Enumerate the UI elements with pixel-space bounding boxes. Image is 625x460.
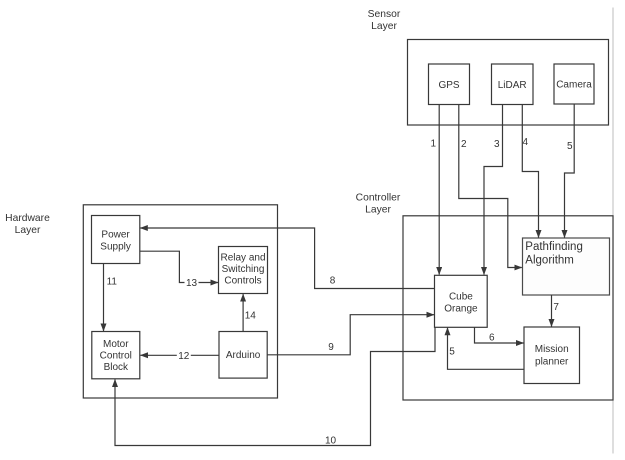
svg-text:Algorithm: Algorithm xyxy=(525,254,574,266)
block Power Supply xyxy=(92,216,140,264)
svg-text:planner: planner xyxy=(535,357,569,368)
svg-text:Orange: Orange xyxy=(444,303,478,314)
svg-text:Hardware: Hardware xyxy=(5,213,50,224)
wire 3 LiDAR to Cube Orange xyxy=(484,105,503,275)
svg-text:Relay and: Relay and xyxy=(220,253,265,264)
svg-text:Layer: Layer xyxy=(365,205,391,216)
block Relay and Switching Controls xyxy=(219,247,268,294)
svg-text:14: 14 xyxy=(245,311,257,322)
svg-text:4: 4 xyxy=(523,137,529,148)
wire 6 Cube Orange to Mission planner xyxy=(475,327,524,343)
svg-text:Controls: Controls xyxy=(224,276,261,287)
block Pathfinding Algorithm xyxy=(523,238,610,295)
svg-text:7: 7 xyxy=(553,302,559,313)
svg-text:11: 11 xyxy=(107,277,118,288)
hardware layer box xyxy=(83,205,277,398)
svg-text:Layer: Layer xyxy=(371,21,397,32)
svg-text:Sensor: Sensor xyxy=(368,9,401,20)
wire 14 Arduino to Relay and Switching Controls xyxy=(243,294,256,331)
svg-text:Cube: Cube xyxy=(449,291,473,302)
wire 9 Arduino to Cube Orange xyxy=(267,315,434,355)
svg-text:10: 10 xyxy=(325,436,337,447)
svg-text:1: 1 xyxy=(431,139,437,150)
svg-text:13: 13 xyxy=(186,278,198,289)
block Arduino xyxy=(219,332,267,379)
label Hardware Layer xyxy=(5,213,50,236)
wire 5 Mission planner to Cube Orange xyxy=(448,328,525,370)
svg-text:GPS: GPS xyxy=(438,80,459,91)
wire 12 Arduino to Motor Control Block xyxy=(141,350,220,362)
wire 11 Power Supply to Motor Control Block xyxy=(104,264,118,332)
block Mission planner xyxy=(524,327,580,384)
wire 5 Camera to Pathfinding Algorithm xyxy=(565,104,575,238)
label Sensor Layer xyxy=(368,9,401,32)
svg-text:Layer: Layer xyxy=(15,225,41,236)
svg-text:3: 3 xyxy=(494,139,500,150)
wire 8 Cube Orange to Power Supply xyxy=(140,228,434,289)
svg-text:Switching: Switching xyxy=(222,264,265,275)
svg-text:Pathfinding: Pathfinding xyxy=(525,241,583,253)
svg-text:6: 6 xyxy=(489,333,495,344)
page edge line xyxy=(612,8,614,454)
controller layer box xyxy=(403,216,613,400)
block Camera xyxy=(554,64,594,104)
wire 2 GPS to Pathfinding Algorithm xyxy=(459,105,522,268)
block Cube Orange xyxy=(435,275,488,327)
svg-text:Power: Power xyxy=(101,230,130,241)
wire 13 Power Supply to Relay and Switching Controls xyxy=(140,251,218,289)
svg-text:9: 9 xyxy=(328,342,334,353)
svg-text:Arduino: Arduino xyxy=(226,350,261,361)
block GPS xyxy=(429,64,470,105)
block Motor Control Block xyxy=(92,332,140,379)
svg-text:Control: Control xyxy=(100,351,132,362)
svg-text:8: 8 xyxy=(330,276,336,287)
svg-text:Controller: Controller xyxy=(356,193,401,204)
svg-text:Motor: Motor xyxy=(103,339,129,350)
block LiDAR xyxy=(492,64,534,105)
wire 7 Pathfinding Algorithm to Mission planner xyxy=(552,295,560,327)
svg-text:Camera: Camera xyxy=(556,80,592,91)
svg-text:2: 2 xyxy=(461,139,467,150)
svg-text:12: 12 xyxy=(178,351,190,362)
svg-text:Block: Block xyxy=(104,362,129,373)
wire 4 LiDAR to Pathfinding Algorithm xyxy=(522,105,538,238)
label Controller Layer xyxy=(356,193,401,216)
sensor layer box xyxy=(408,40,609,126)
svg-text:LiDAR: LiDAR xyxy=(498,80,527,91)
wire 1 GPS to Cube Orange xyxy=(431,105,440,275)
svg-text:5: 5 xyxy=(567,141,573,152)
wire 10 Cube Orange to Motor Control Block xyxy=(115,328,435,447)
svg-text:5: 5 xyxy=(449,347,455,358)
svg-text:Mission: Mission xyxy=(535,344,569,355)
svg-text:Supply: Supply xyxy=(100,241,131,252)
